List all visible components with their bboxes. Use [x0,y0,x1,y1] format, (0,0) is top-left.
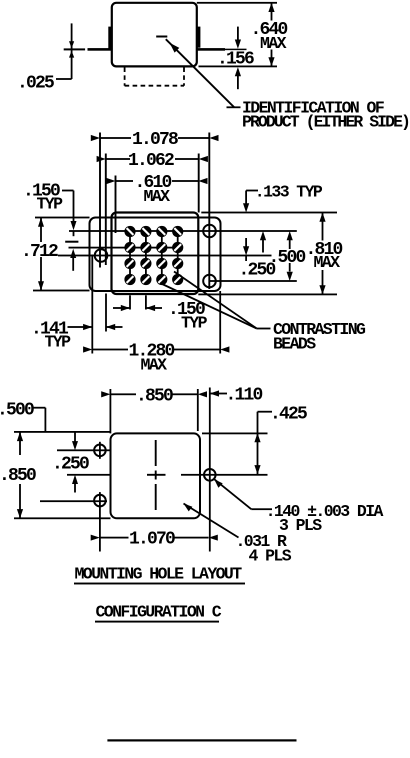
svg-text:.500: .500 [269,248,306,268]
svg-text:TYP: TYP [181,314,208,333]
svg-text:MAX: MAX [260,34,287,53]
svg-text:.850: .850 [136,386,173,406]
svg-text:PRODUCT (EITHER SIDE): PRODUCT (EITHER SIDE) [242,113,409,132]
svg-text:1.062: 1.062 [128,151,174,171]
svg-text:.850: .850 [0,466,36,486]
svg-text:.712: .712 [21,242,58,262]
svg-text:MAX: MAX [144,187,171,206]
svg-text:MAX: MAX [141,356,168,375]
svg-text:.025: .025 [17,74,54,94]
svg-text:CONFIGURATION C: CONFIGURATION C [96,603,222,622]
svg-text:MAX: MAX [314,253,341,272]
svg-text:.156: .156 [217,50,254,70]
svg-text:.500: .500 [0,401,34,421]
svg-text:MOUNTING HOLE LAYOUT: MOUNTING HOLE LAYOUT [75,565,243,584]
svg-text:BEADS: BEADS [273,335,316,354]
svg-text:1.078: 1.078 [132,130,178,150]
svg-text:TYP: TYP [37,195,64,214]
svg-text:4 PLS: 4 PLS [249,546,292,565]
svg-text:TYP: TYP [45,333,72,352]
svg-text:.425: .425 [270,405,307,425]
svg-text:.133 TYP: .133 TYP [255,183,323,202]
svg-text:.110: .110 [226,386,263,406]
svg-text:1.070: 1.070 [129,530,175,550]
svg-text:3 PLS: 3 PLS [279,516,322,535]
svg-text:.250: .250 [52,455,89,475]
